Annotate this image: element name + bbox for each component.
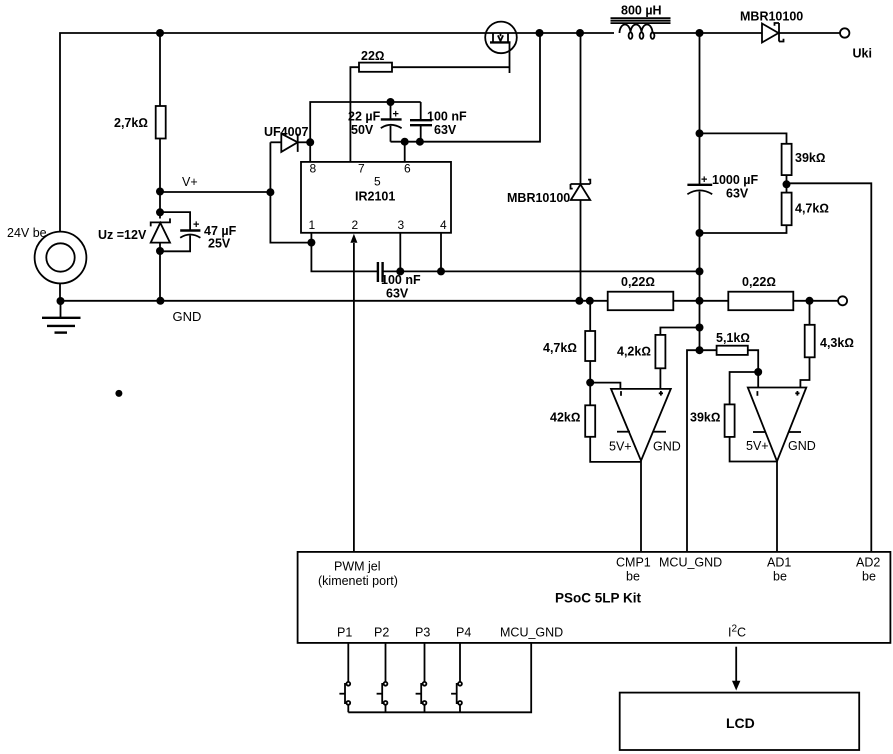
button P2 bbox=[377, 643, 388, 712]
zener diode Uz=12V bbox=[98, 218, 170, 251]
node bootstrap cap top bbox=[387, 98, 395, 106]
node pin8 bbox=[306, 138, 314, 146]
svg-text:be: be bbox=[773, 570, 787, 584]
button P1 bbox=[339, 643, 350, 712]
svg-text:GND: GND bbox=[788, 439, 816, 453]
node mcu tap bbox=[696, 346, 704, 354]
diode D3 MBR10100 freewheel bbox=[507, 33, 590, 301]
node V+ bbox=[156, 175, 198, 196]
svg-text:5: 5 bbox=[374, 175, 381, 189]
op-amp U3 bbox=[746, 388, 816, 462]
op-amp U2 bbox=[609, 389, 681, 461]
node stray dot bbox=[115, 390, 122, 397]
svg-text:24V be: 24V be bbox=[7, 226, 47, 240]
node pin4 bbox=[437, 267, 445, 275]
svg-text:5,1kΩ: 5,1kΩ bbox=[716, 331, 750, 345]
svg-text:IR2101: IR2101 bbox=[355, 190, 395, 204]
inductor L1 800uH bbox=[611, 4, 763, 39]
resistor R6 0,22 bbox=[728, 275, 838, 310]
svg-text:MBR10100: MBR10100 bbox=[507, 191, 570, 205]
svg-text:V+: V+ bbox=[182, 175, 198, 189]
node low rail end bbox=[696, 267, 704, 275]
svg-text:Uz =12V: Uz =12V bbox=[98, 228, 147, 242]
svg-text:MCU_GND: MCU_GND bbox=[659, 556, 722, 570]
wire top rail mid bbox=[517, 32, 614, 34]
svg-text:4,2kΩ: 4,2kΩ bbox=[617, 345, 651, 359]
ground bbox=[42, 301, 81, 333]
resistor R12 4,3k bbox=[800, 301, 854, 388]
wire pin6 stub bbox=[404, 142, 406, 162]
wire pin1 stub bbox=[310, 233, 312, 243]
node gnd sense bbox=[586, 297, 594, 305]
svg-text:GND: GND bbox=[653, 440, 681, 454]
svg-text:22 µF: 22 µF bbox=[348, 110, 381, 124]
svg-text:AD2: AD2 bbox=[856, 556, 880, 570]
wire pin8 stub bbox=[309, 142, 311, 162]
svg-text:be: be bbox=[862, 570, 876, 584]
svg-text:Uki: Uki bbox=[853, 47, 872, 61]
svg-text:42kΩ: 42kΩ bbox=[550, 411, 580, 425]
terminal out2 bbox=[838, 296, 847, 305]
svg-text:7: 7 bbox=[358, 162, 365, 176]
node input rail junction bbox=[156, 29, 164, 37]
wire PWM pin2 arrow bbox=[350, 234, 357, 552]
node gnd left bbox=[57, 297, 65, 305]
node sense out bbox=[806, 297, 814, 305]
node boot cap bottom bbox=[416, 138, 424, 146]
diode D1 UF4007 bbox=[264, 125, 310, 152]
resistor R4 4,7k bbox=[700, 184, 829, 233]
svg-text:1000 µF: 1000 µF bbox=[712, 173, 758, 187]
svg-text:GND: GND bbox=[173, 309, 202, 324]
node V+ branch bbox=[266, 188, 274, 196]
svg-text:25V: 25V bbox=[208, 237, 231, 251]
svg-text:be: be bbox=[626, 570, 640, 584]
node pin1 bbox=[307, 239, 315, 247]
svg-text:P4: P4 bbox=[456, 626, 471, 640]
svg-text:63V: 63V bbox=[434, 123, 457, 137]
node noninv1 tap bbox=[696, 324, 704, 332]
svg-text:39kΩ: 39kΩ bbox=[795, 151, 825, 165]
svg-text:63V: 63V bbox=[386, 287, 409, 301]
node divider mid bbox=[783, 180, 791, 188]
node gnd freewheel bbox=[575, 297, 583, 305]
wire inv1 to opamp bbox=[590, 383, 620, 389]
svg-text:63V: 63V bbox=[726, 187, 749, 201]
svg-text:50V: 50V bbox=[351, 123, 374, 137]
IC U5 LCD box bbox=[620, 693, 860, 750]
IC U4 PSoC box bbox=[298, 552, 891, 643]
svg-text:4,7kΩ: 4,7kΩ bbox=[795, 202, 829, 216]
wire pin1 to cap bbox=[311, 243, 378, 272]
wire GND rail bbox=[60, 301, 608, 324]
wire bootstrap top bbox=[310, 102, 421, 142]
node zener bottom bbox=[156, 247, 164, 255]
resistor R3 39k bbox=[782, 144, 826, 185]
node divider top bbox=[696, 129, 704, 137]
svg-text:39kΩ: 39kΩ bbox=[690, 411, 720, 425]
node sense mid bbox=[696, 297, 704, 305]
node switch junction B bbox=[576, 29, 584, 37]
wire pin3 to pin4 bbox=[400, 270, 441, 272]
svg-text:0,22Ω: 0,22Ω bbox=[742, 275, 776, 289]
wire V+ branch down to pin1 bbox=[270, 192, 311, 242]
capacitor C1 47uF bbox=[160, 212, 237, 251]
wire inv2 stub bbox=[757, 372, 759, 388]
diode D2 MBR10100 out bbox=[740, 10, 840, 43]
wire source to gnd bbox=[59, 283, 61, 301]
wire low rail right bbox=[441, 270, 700, 272]
svg-text:PSoC 5LP Kit: PSoC 5LP Kit bbox=[555, 591, 642, 606]
svg-text:PWM jel: PWM jel bbox=[334, 560, 381, 574]
svg-text:AD1: AD1 bbox=[767, 556, 791, 570]
wire I2C arrow bbox=[732, 647, 740, 691]
resistor R9 4,2k bbox=[617, 328, 700, 389]
resistor R8 42k bbox=[550, 383, 641, 462]
wire top rail left bbox=[60, 33, 485, 232]
wire mcu gnd line bbox=[687, 350, 717, 552]
svg-text:P3: P3 bbox=[415, 626, 430, 640]
terminal Uki bbox=[840, 28, 872, 60]
svg-text:22Ω: 22Ω bbox=[361, 49, 385, 63]
svg-text:UF4007: UF4007 bbox=[264, 125, 309, 139]
wire opamp1 out bbox=[640, 461, 642, 552]
node switch junction A bbox=[536, 29, 544, 37]
node inv2 bbox=[754, 368, 762, 376]
wire V+ to driver bbox=[160, 191, 270, 193]
svg-text:(kimeneti port): (kimeneti port) bbox=[318, 574, 398, 588]
svg-text:5V+: 5V+ bbox=[746, 439, 769, 453]
node gnd mid bbox=[156, 297, 164, 305]
svg-text:4,7kΩ: 4,7kΩ bbox=[543, 341, 577, 355]
voltage source 24V be bbox=[7, 226, 86, 283]
wire V+ branch up bbox=[269, 142, 271, 192]
svg-text:3: 3 bbox=[398, 218, 405, 232]
svg-text:8: 8 bbox=[310, 162, 317, 176]
svg-text:LCD: LCD bbox=[726, 715, 755, 731]
svg-text:I2C: I2C bbox=[728, 624, 746, 640]
resistor R10 5,1k bbox=[716, 331, 758, 372]
node pin6 top bbox=[401, 138, 409, 146]
svg-text:5V+: 5V+ bbox=[609, 440, 632, 454]
transistor Q1 mosfet bbox=[485, 22, 517, 73]
svg-text:4: 4 bbox=[440, 218, 447, 232]
svg-text:+: + bbox=[193, 219, 199, 231]
svg-text:MBR10100: MBR10100 bbox=[740, 10, 803, 24]
resistor R11 39k fb bbox=[690, 372, 777, 462]
wire divider top bbox=[700, 133, 787, 143]
capacitor C2 100nF low bbox=[378, 262, 421, 301]
capacitor C3 22uF bbox=[348, 102, 402, 142]
resistor R5 0,22 bbox=[608, 275, 729, 310]
svg-text:6: 6 bbox=[404, 162, 411, 176]
node pin3 bbox=[396, 267, 404, 275]
wire divider to AD2 bbox=[787, 183, 872, 552]
IC U1 IR2101 bbox=[301, 162, 451, 233]
wire opamp2 out bbox=[776, 461, 778, 552]
wire pin3 stub bbox=[399, 233, 401, 272]
svg-text:MCU_GND: MCU_GND bbox=[500, 626, 563, 640]
wire V+ to zener bbox=[159, 192, 161, 219]
resistor R7 4,7k sense bbox=[543, 301, 595, 383]
wire button common rail bbox=[348, 643, 531, 712]
node output cap top bbox=[696, 29, 704, 37]
resistor R1 2,7k bbox=[114, 33, 166, 192]
svg-text:CMP1: CMP1 bbox=[616, 556, 651, 570]
wire bootstrap bottom rail bbox=[391, 33, 541, 142]
svg-text:P2: P2 bbox=[374, 626, 389, 640]
svg-text:P1: P1 bbox=[337, 626, 352, 640]
svg-text:4,3kΩ: 4,3kΩ bbox=[820, 336, 854, 350]
capacitor C4 100nF boot bbox=[410, 102, 467, 142]
wire zener to gnd bbox=[159, 251, 161, 301]
button P3 bbox=[416, 643, 427, 712]
svg-text:2,7kΩ: 2,7kΩ bbox=[114, 116, 148, 130]
node inv1 bbox=[586, 379, 594, 387]
node zener top bbox=[156, 208, 164, 216]
svg-text:100 nF: 100 nF bbox=[427, 110, 467, 124]
resistor R2 22R bbox=[350, 49, 509, 162]
svg-text:1: 1 bbox=[309, 218, 316, 232]
node cap bottom bbox=[696, 229, 704, 237]
svg-text:0,22Ω: 0,22Ω bbox=[621, 275, 655, 289]
svg-text:+: + bbox=[393, 109, 399, 121]
button P4 bbox=[451, 643, 462, 712]
wire pin4 stub bbox=[440, 233, 442, 272]
svg-text:800 µH: 800 µH bbox=[621, 4, 662, 18]
svg-text:2: 2 bbox=[352, 218, 359, 232]
svg-text:+: + bbox=[701, 174, 707, 186]
capacitor C5 1000uF bbox=[687, 33, 758, 350]
